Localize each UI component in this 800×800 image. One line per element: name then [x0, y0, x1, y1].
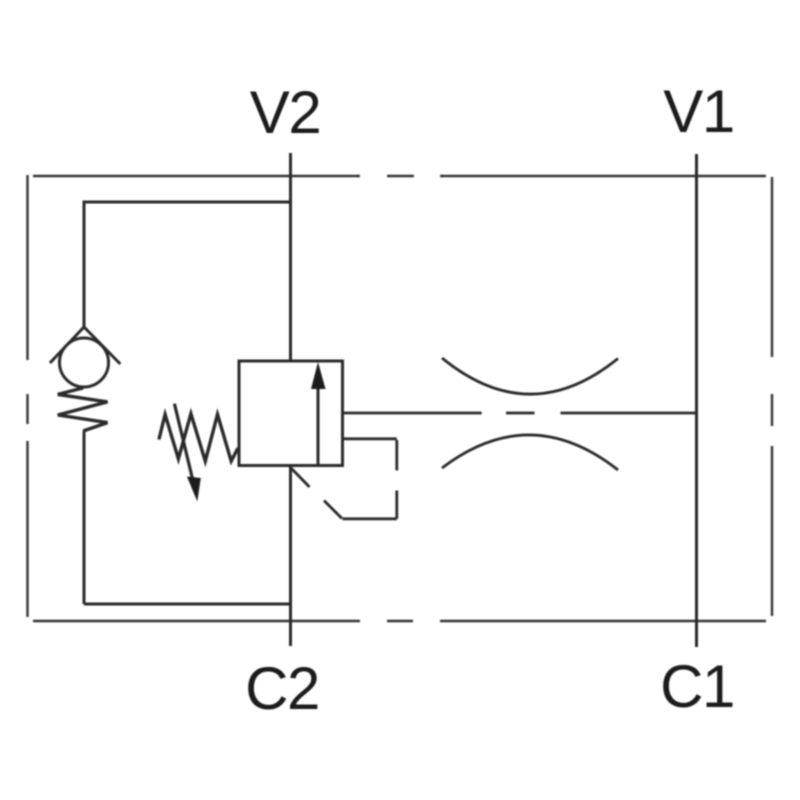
wire check-valve branch bottom horizontal: [84, 603, 291, 606]
orifice upper arc: [442, 358, 618, 394]
orifice lower arc: [442, 435, 618, 470]
adjustable spring zigzag: [159, 414, 238, 461]
wire valve outlet line dash: [506, 412, 535, 415]
svg-text:C2: C2: [245, 655, 319, 722]
wire V1-C1 port line: [695, 154, 698, 647]
wire V2-C2 port line upper: [289, 153, 292, 361]
check valve CV seat: [50, 327, 120, 364]
enclosure dashed border bottom: [33, 620, 766, 622]
wire V2-C2 port line lower: [289, 466, 292, 647]
relief valve body box: [239, 361, 343, 466]
wire check-valve branch left vertical lower: [83, 431, 86, 604]
wire check-valve branch top horizontal: [84, 201, 291, 204]
pilot line diagonal dash 2: [324, 501, 342, 519]
enclosure dashed border top: [33, 175, 766, 177]
pilot line right vertical dash 1: [395, 440, 398, 471]
wire valve outlet line segment 2: [561, 412, 698, 415]
relief valve flow arrow head: [311, 362, 326, 389]
enclosure dashed border right: [771, 177, 773, 616]
pilot line top horizontal: [343, 437, 397, 440]
pilot line right vertical dash 2: [395, 491, 398, 519]
wire valve outlet line segment 1: [343, 412, 482, 415]
relief valve flow arrow shaft: [317, 387, 320, 466]
pilot line diagonal dash 1: [292, 469, 310, 488]
check valve CV ball: [60, 338, 109, 387]
svg-text:C1: C1: [660, 653, 734, 720]
wire check-valve branch left vertical upper: [83, 201, 86, 329]
adjustment arrow shaft: [174, 404, 192, 478]
svg-text:V2: V2: [250, 79, 320, 146]
pilot line bottom horizontal: [343, 517, 397, 520]
enclosure dashed border left: [26, 175, 28, 617]
adjustment arrow head: [187, 477, 201, 502]
svg-text:V1: V1: [663, 78, 733, 145]
check valve CV spring: [58, 388, 108, 431]
